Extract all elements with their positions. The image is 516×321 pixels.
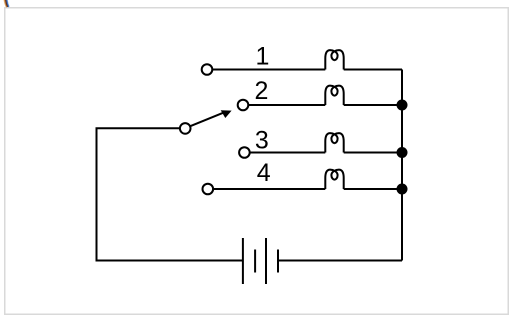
lamp L3	[325, 133, 343, 152]
wire row 3	[250, 152, 325, 154]
svg-text:4: 4	[257, 159, 271, 187]
terminal 3 circle	[239, 147, 250, 158]
wiper pivot circle	[180, 123, 191, 134]
wire row 1	[212, 69, 325, 71]
lamp L2	[325, 86, 343, 105]
battery B1 short plate right	[277, 250, 279, 273]
battery B1 long plate left	[242, 238, 244, 284]
right rail	[401, 70, 403, 261]
terminal 1 circle	[202, 64, 213, 75]
wire row 2	[249, 104, 326, 106]
wire row 3 right	[344, 152, 402, 154]
battery B1 long plate right	[265, 238, 267, 284]
terminal 2 circle	[238, 100, 249, 111]
wire row 4	[213, 188, 325, 190]
lamp L1	[325, 50, 343, 69]
lamp L4	[325, 170, 343, 189]
terminal 4 circle	[203, 184, 214, 195]
wire row 1 right	[344, 69, 402, 71]
wire row 2 right	[344, 104, 402, 106]
wire battery to rail	[278, 260, 402, 262]
junction dot row 4	[397, 184, 408, 195]
wiper arm wire	[190, 112, 224, 126]
wiper feed wire	[97, 128, 243, 260]
junction dot row 3	[397, 147, 408, 158]
svg-text:2: 2	[255, 77, 269, 105]
arrowhead of wiper	[221, 110, 232, 118]
svg-text:3: 3	[255, 127, 269, 155]
svg-text:1: 1	[256, 43, 270, 71]
wire row 4 right	[344, 188, 402, 190]
battery B1 short plate left	[254, 250, 256, 273]
junction dot row 2	[397, 100, 408, 111]
stray glyph fragment top-left	[4, 0, 8, 7]
